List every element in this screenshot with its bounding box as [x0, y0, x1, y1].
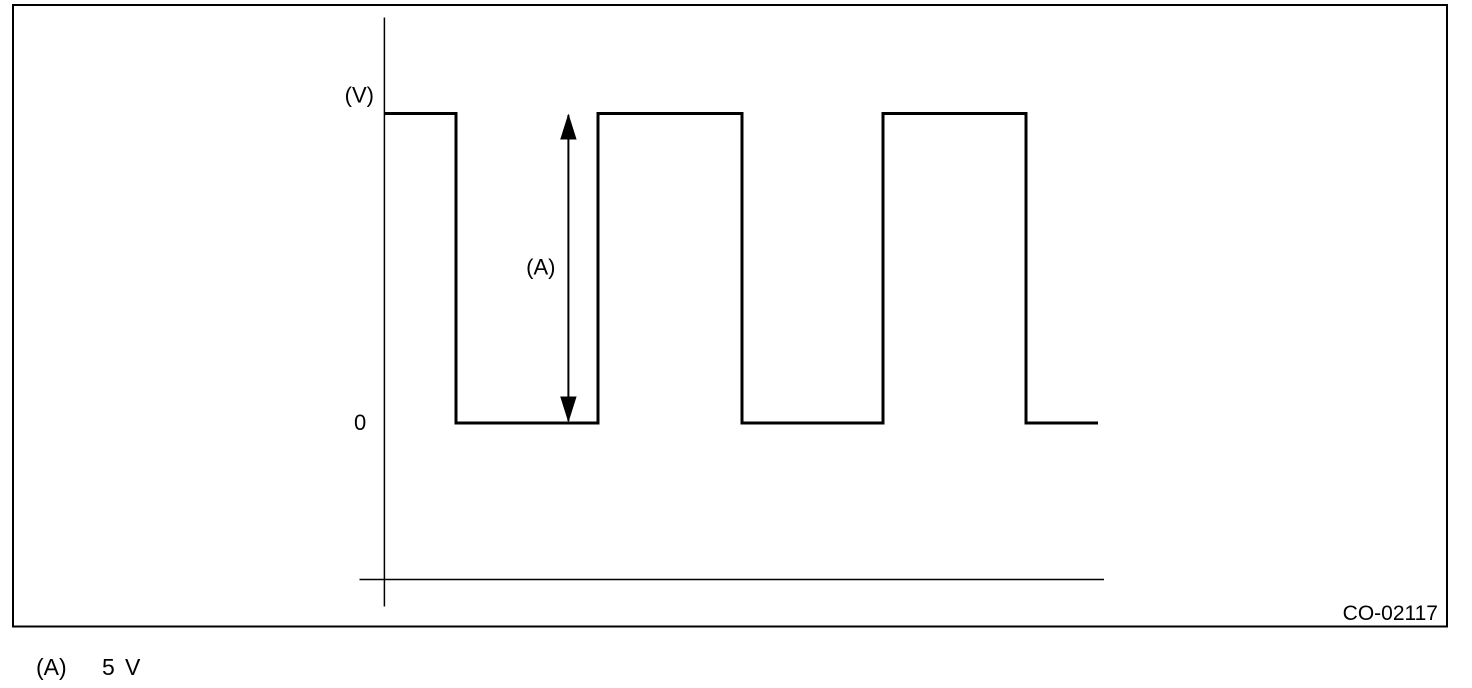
svg-text:5: 5 — [102, 654, 115, 680]
time baseline — [360, 579, 1105, 581]
svg-text:CO-02117: CO-02117 — [1343, 602, 1438, 625]
voltage axis — [383, 18, 385, 607]
svg-text:0: 0 — [354, 410, 366, 435]
svg-text:(A): (A) — [526, 255, 555, 280]
svg-text:V: V — [125, 654, 141, 680]
waveform square wave — [384, 114, 1098, 424]
svg-text:(V): (V) — [345, 83, 374, 108]
svg-text:(A): (A) — [36, 654, 67, 680]
amplitude arrow — [560, 114, 576, 423]
